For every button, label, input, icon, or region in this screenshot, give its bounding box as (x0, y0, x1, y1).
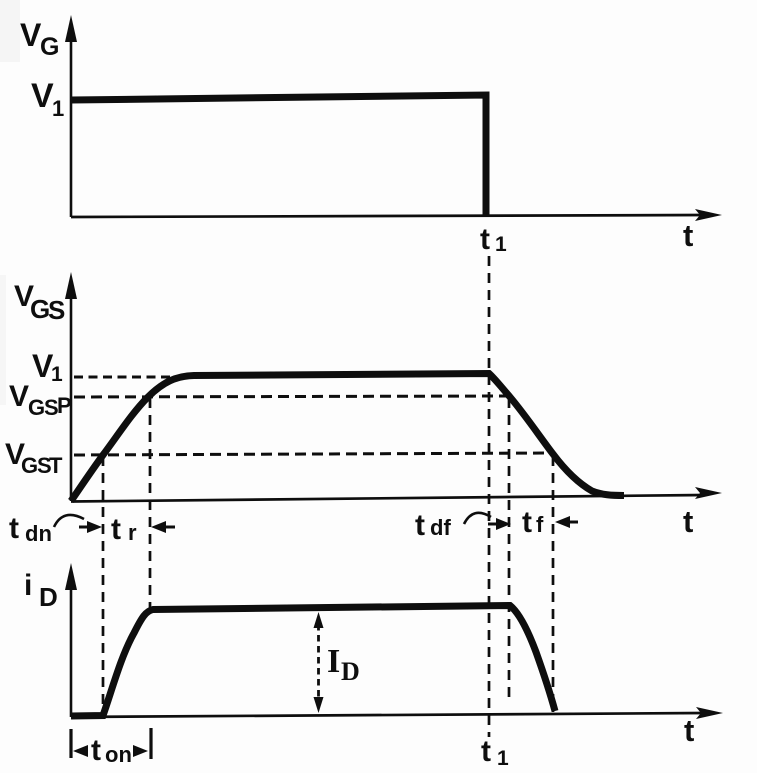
svg-text:G: G (28, 395, 45, 420)
label V_G (20, 17, 59, 61)
dashed level line VGST (74, 453, 554, 455)
svg-text:1: 1 (52, 96, 64, 121)
svg-text:G: G (21, 453, 38, 478)
svg-text:1: 1 (495, 233, 507, 256)
dashed vertical at t_dn end (x=103) (102, 456, 105, 705)
svg-text:on: on (105, 742, 132, 767)
label V_GS (14, 280, 65, 325)
dashed vertical at t_f end (x=553) (552, 456, 555, 712)
dashed vertical at t_r end (x=150) (149, 398, 152, 612)
t_on bracket right bar (149, 728, 152, 759)
t_on left arrow (points left to bar) (73, 745, 88, 757)
svg-text:1: 1 (51, 363, 63, 386)
svg-text:t: t (480, 223, 490, 256)
t_on right arrow (points right to bar) (133, 745, 148, 757)
ID measure arrow (dashed, double-headed) (314, 612, 324, 713)
arrowhead t axis (bottom) (696, 707, 723, 719)
label t_df (415, 509, 451, 542)
svg-text:V: V (31, 77, 54, 115)
label t1 (top) (480, 223, 507, 256)
svg-text:t: t (522, 506, 532, 539)
label t_r (111, 513, 137, 546)
label V_GST (5, 438, 63, 478)
gate pulse waveform (71, 95, 486, 216)
svg-text:D: D (341, 657, 360, 686)
svg-text:t: t (9, 512, 19, 545)
label t1 (bottom) (481, 735, 509, 770)
svg-text:P: P (57, 393, 72, 418)
dashed level line V1 (74, 376, 196, 379)
svg-text:V: V (20, 17, 42, 53)
svg-text:t: t (684, 713, 694, 748)
VGS waveform curve (71, 374, 624, 502)
hook arrow t_df (464, 513, 491, 524)
dashed level line VGSP (74, 396, 509, 397)
arrowhead iD axis (65, 563, 77, 590)
hook arrow t_dn (54, 515, 84, 527)
axis VGS vertical (70, 295, 73, 501)
label t_dn (9, 512, 52, 546)
label V_GSP (9, 380, 72, 420)
svg-text:r: r (128, 520, 137, 545)
arrow t_df (points right to x=509) (488, 518, 511, 530)
axis VG vertical (70, 34, 73, 217)
label t_f (522, 506, 544, 539)
svg-text:D: D (39, 582, 58, 612)
svg-text:f: f (536, 512, 544, 537)
svg-text:T: T (49, 453, 63, 478)
svg-text:t: t (481, 735, 491, 768)
svg-text:G: G (40, 33, 59, 61)
axis t horizontal (bottom) (71, 713, 704, 717)
label t_on (91, 734, 132, 767)
dashed vertical at t_df end (x=509) (508, 398, 511, 697)
svg-text:dn: dn (25, 521, 52, 546)
svg-text:df: df (430, 515, 451, 540)
axis t horizontal (top) (71, 215, 704, 217)
svg-text:I: I (327, 643, 340, 680)
arrowhead VG axis (65, 15, 77, 42)
faint scan smudges (0, 0, 20, 62)
svg-text:V: V (9, 380, 29, 413)
t_on bracket left bar (69, 729, 72, 758)
arrow t_dn (points right to x=103) (79, 521, 102, 533)
arrow t_f (points left to x=553) (555, 516, 578, 528)
axis t horizontal (middle) (71, 495, 704, 502)
svg-text:i: i (24, 569, 32, 602)
svg-text:t: t (415, 509, 425, 542)
svg-text:1: 1 (497, 747, 509, 770)
label i_D (24, 569, 58, 612)
arrowhead t axis (top) (695, 209, 722, 221)
label V1 (middle) (32, 348, 63, 386)
dashed vertical t1 long line (x=489) (488, 256, 491, 737)
svg-text:t: t (683, 504, 693, 539)
svg-text:S: S (48, 295, 65, 325)
axis iD vertical (70, 588, 73, 717)
svg-text:t: t (91, 734, 101, 767)
svg-text:t: t (683, 218, 693, 253)
svg-text:t: t (111, 513, 121, 546)
arrowhead t axis (middle) (695, 487, 722, 499)
arrow t_r (points left to x=150) (151, 521, 175, 533)
label I_D (327, 643, 360, 686)
arrowhead VGS axis (65, 272, 77, 299)
label V1 (top) (31, 77, 64, 121)
iD waveform (71, 606, 555, 717)
